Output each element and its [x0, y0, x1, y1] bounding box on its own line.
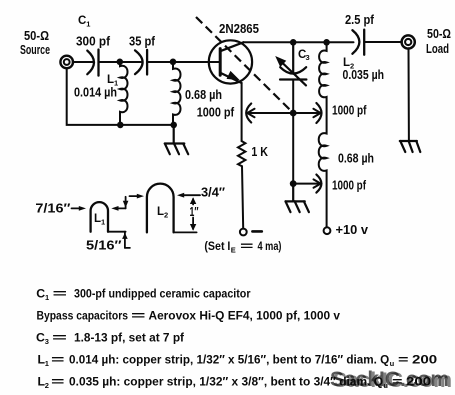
- label C3: [298, 49, 310, 62]
- capacitor C2 35pf: [135, 50, 147, 75]
- svg-text:L: L: [94, 213, 101, 225]
- svg-text:SackIC.com: SackIC.com: [330, 367, 449, 391]
- svg-text:1000 pf: 1000 pf: [197, 106, 235, 120]
- extension line L2 bottom: [175, 231, 197, 233]
- svg-text:+10 v: +10 v: [336, 223, 369, 237]
- note line 5: [38, 375, 432, 391]
- shield arc left: [246, 104, 251, 123]
- junction dot bottom L1: [117, 122, 124, 129]
- svg-text:(Set I: (Set I: [204, 239, 230, 253]
- coax connector J1 (50-ohm source): [60, 56, 73, 69]
- label C1: [78, 15, 90, 29]
- dim arrow left at L1 right leg: [117, 207, 126, 209]
- junction dot feedthrough upper: [290, 110, 297, 117]
- dim arrow right into L1: [72, 207, 81, 209]
- node A junction dot: [117, 59, 124, 66]
- capacitor C1 300pf: [87, 50, 98, 76]
- label L2: [343, 57, 354, 71]
- note line 4: [38, 353, 438, 369]
- svg-text:0.035 µh: 0.035 µh: [343, 68, 385, 82]
- wire node B to base: [173, 61, 220, 63]
- node B junction dot: [170, 59, 177, 66]
- svg-text:4 ma): 4 ma): [258, 239, 282, 253]
- inductor L1 0.014uh: [120, 62, 128, 125]
- notes: [36, 287, 437, 391]
- terminal minus (open circle): [240, 229, 247, 236]
- label L1: [107, 74, 118, 88]
- svg-text:50-Ω: 50-Ω: [24, 29, 49, 43]
- label 50-ohm Load: [426, 27, 451, 56]
- coax connector J2 (50-ohm load): [402, 35, 415, 48]
- svg-text:2: 2: [164, 211, 168, 220]
- svg-text:50-Ω: 50-Ω: [427, 27, 451, 41]
- transistor Q1 2N2865: [209, 40, 252, 83]
- coil L2 physical drawing (arch): [147, 184, 174, 233]
- feedthrough capacitor lower 1000pf: [293, 179, 321, 187]
- junction dot L2 top: [323, 39, 330, 46]
- svg-text:0.014 µh: 0.014 µh: [74, 86, 117, 100]
- svg-text:L: L: [157, 206, 164, 218]
- junction dot C3 top: [290, 39, 297, 46]
- svg-text:C: C: [36, 331, 45, 345]
- wire C1 to node A: [99, 61, 120, 63]
- label L2 in arch: [157, 206, 168, 220]
- svg-text:3: 3: [306, 53, 310, 62]
- inductor 0.68uh (input side): [173, 62, 181, 125]
- svg-text:2N2865: 2N2865: [219, 21, 259, 36]
- inductor L2 0.035uh + 0.68uh chain: [319, 42, 327, 227]
- wire C2 to node B: [147, 61, 173, 63]
- svg-text:=: =: [53, 287, 68, 301]
- resistor R1 1K: [238, 141, 245, 166]
- svg-text:=: =: [52, 331, 67, 345]
- svg-text:1000 pf: 1000 pf: [332, 179, 367, 193]
- svg-text:1: 1: [86, 20, 90, 29]
- svg-text:0.68 µh: 0.68 µh: [185, 88, 222, 102]
- svg-text:Aerovox Hi-Q EF4, 1000 pf, 100: Aerovox Hi-Q EF4, 1000 pf, 1000 v: [149, 309, 341, 323]
- svg-text:5/16″: 5/16″: [86, 239, 122, 253]
- svg-text:200: 200: [412, 353, 437, 367]
- svg-text:300-pf undipped ceramic capaci: 300-pf undipped ceramic capacitor: [74, 287, 251, 301]
- svg-text:Source: Source: [20, 43, 50, 57]
- svg-text:=: =: [398, 353, 409, 367]
- dashed shield line: [196, 17, 293, 113]
- svg-text:1: 1: [101, 218, 105, 227]
- emitter wire down: [241, 83, 243, 141]
- extension line L1 bottom + 5/16 arrow: [108, 231, 126, 233]
- shield arc lower right: [316, 175, 321, 193]
- C3 arrow head: [276, 57, 285, 66]
- label (Set IE = 4 ma): [204, 239, 281, 254]
- svg-text:=: =: [240, 239, 254, 253]
- dim arrow left at L2 right leg, leader to 3/4: [183, 194, 200, 196]
- ground G2 (middle): [286, 184, 309, 213]
- svg-text:C: C: [78, 15, 86, 27]
- node label 50-ohm Source: [20, 29, 50, 57]
- svg-text:1: 1: [45, 359, 49, 368]
- svg-text:2.5 pf: 2.5 pf: [345, 13, 375, 27]
- svg-text:Load: Load: [426, 42, 449, 56]
- svg-text:1 K: 1 K: [251, 145, 268, 159]
- C3 wire down: [292, 80, 294, 184]
- junction dot bottom coil: [170, 122, 177, 129]
- feedthrough capacitor upper 1000pf (wire with arcs): [247, 109, 320, 117]
- svg-text:1: 1: [45, 293, 49, 302]
- svg-text:1.8-13 pf, set at 7 pf: 1.8-13 pf, set at 7 pf: [74, 331, 185, 345]
- svg-text:0.014 µh: copper strip, 1/32″: 0.014 µh: copper strip, 1/32″ x 5/16″, b…: [69, 353, 390, 367]
- svg-text:L: L: [107, 74, 114, 86]
- svg-text:=: =: [131, 309, 146, 323]
- svg-text:2: 2: [45, 381, 49, 390]
- wire resistor to minus terminal: [242, 166, 243, 229]
- svg-text:Bypass capacitors: Bypass capacitors: [37, 309, 129, 323]
- svg-text:=: =: [51, 375, 65, 389]
- minus sign: [252, 230, 261, 233]
- note line 1: [36, 287, 250, 303]
- label L1 in arch: [94, 213, 105, 227]
- collector top rail: [243, 41, 353, 43]
- svg-text:35 pf: 35 pf: [129, 35, 156, 49]
- svg-text:300 pf: 300 pf: [76, 35, 111, 49]
- svg-text:3/4″: 3/4″: [201, 186, 225, 200]
- terminal +10v (open circle): [324, 227, 331, 234]
- variable capacitor C3: [280, 42, 306, 85]
- wire cap to load connector: [364, 41, 402, 43]
- bottom ground rail: [67, 68, 174, 125]
- wire node A to C2: [120, 61, 141, 63]
- dimension 1 inch arrows: [192, 199, 194, 205]
- svg-text:1″: 1″: [190, 205, 199, 219]
- junction dot feedthrough lower: [290, 180, 297, 187]
- wire load connector down: [408, 48, 410, 141]
- svg-text:C: C: [36, 287, 45, 301]
- svg-text:=: =: [51, 353, 65, 367]
- dim arrow right into L2: [130, 195, 138, 197]
- capacitor 2.5pf: [352, 30, 364, 55]
- watermark: [330, 367, 452, 392]
- shield arc right: [316, 103, 321, 123]
- emitter arrow: [227, 72, 238, 80]
- ground G3 (under load): [400, 141, 421, 152]
- svg-text:3: 3: [45, 337, 49, 346]
- svg-text:1000 pf: 1000 pf: [332, 104, 367, 118]
- dim jog vertical with down arrow: [125, 197, 127, 209]
- svg-text:0.68 µh: 0.68 µh: [338, 152, 374, 166]
- svg-text:7/16″: 7/16″: [35, 202, 70, 216]
- note line 2: [37, 309, 341, 323]
- ground G1: [165, 125, 188, 154]
- note line 3: [36, 331, 185, 347]
- svg-text:E: E: [231, 245, 236, 254]
- wire source to C1: [73, 61, 93, 63]
- coil L1 physical drawing (arch): [91, 202, 108, 232]
